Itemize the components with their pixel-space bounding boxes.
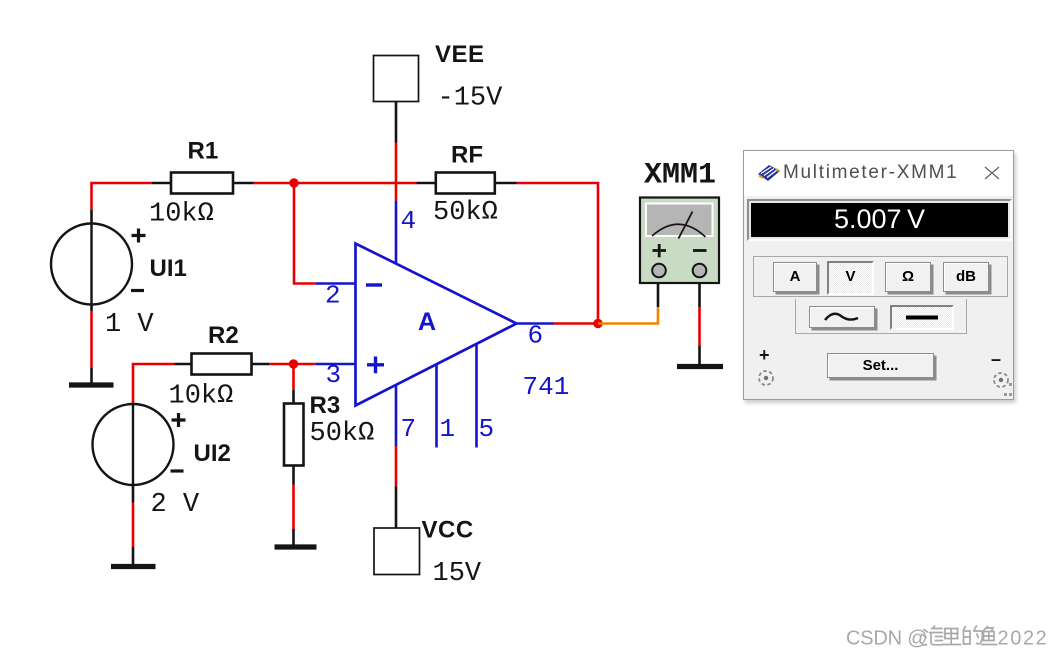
wire VEE stem red xyxy=(395,143,398,202)
svg-text:2022: 2022 xyxy=(998,628,1049,650)
op-amp pin 2 stub xyxy=(316,282,356,285)
svg-text:R3: R3 xyxy=(310,392,341,419)
op-amp minus mark xyxy=(366,283,382,286)
wire multimeter minus stem xyxy=(698,283,701,307)
junction node A xyxy=(289,178,298,187)
knob left xyxy=(757,369,775,387)
junction node C xyxy=(289,359,298,368)
op-amp pin 5 wire xyxy=(475,344,478,448)
svg-text:CSDN @: CSDN @ xyxy=(846,628,927,650)
op-amp plus mark xyxy=(367,357,384,374)
wire R2 to node C xyxy=(269,363,294,366)
svg-text:VEE: VEE xyxy=(435,41,485,68)
ground multimeter xyxy=(677,364,723,369)
svg-text:7: 7 xyxy=(401,414,417,444)
groove row 1 xyxy=(753,256,1008,297)
svg-text:15V: 15V xyxy=(433,559,482,589)
svg-text:2: 2 xyxy=(325,281,341,311)
svg-text:RF: RF xyxy=(451,142,483,169)
svg-text:A: A xyxy=(418,308,436,336)
power VCC xyxy=(374,528,420,575)
svg-text:10kΩ: 10kΩ xyxy=(169,382,234,412)
power VEE xyxy=(374,56,419,102)
plus terminal label xyxy=(759,345,770,366)
svg-text:1 V: 1 V xyxy=(105,310,154,340)
svg-text:R1: R1 xyxy=(188,138,219,165)
knob right xyxy=(992,371,1010,389)
groove row 2 xyxy=(795,299,967,334)
minus terminal label xyxy=(991,349,1001,370)
wire R3 bottom red xyxy=(292,485,295,530)
svg-text:741: 741 xyxy=(523,372,570,402)
sine button xyxy=(809,306,875,328)
resize grip xyxy=(1000,383,1013,397)
wire multimeter plus stem xyxy=(657,283,660,307)
svg-text:10kΩ: 10kΩ xyxy=(149,200,214,230)
svg-text:-15V: -15V xyxy=(438,84,504,114)
svg-text:R2: R2 xyxy=(208,322,239,349)
svg-text:UI2: UI2 xyxy=(194,440,231,467)
wire UI1 bottom red xyxy=(90,311,93,368)
resistor RF xyxy=(417,173,517,194)
wire node C to R3 red xyxy=(292,364,295,390)
wire UI2 bottom red xyxy=(132,503,135,548)
wire pin7 to VCC red xyxy=(395,446,398,487)
title bar xyxy=(744,151,1013,196)
wire UI2 ground stem xyxy=(132,547,135,564)
junction node B xyxy=(593,319,602,328)
wire UI1 ground stem xyxy=(90,368,93,383)
wire UI1 top stub black xyxy=(90,210,93,224)
resistor R3 xyxy=(284,404,304,466)
wire UI1 top to R1 xyxy=(92,183,153,210)
wire multimeter minus red xyxy=(698,307,701,346)
display xyxy=(747,199,1012,241)
ground UI2 xyxy=(111,564,156,569)
op-amp pin 4 wire xyxy=(395,201,398,264)
multimeter window xyxy=(743,150,1014,400)
svg-text:6: 6 xyxy=(528,321,544,351)
svg-text:4: 4 xyxy=(401,206,417,236)
wire UI2 bottom black xyxy=(132,485,135,503)
wire orange to multimeter xyxy=(598,307,658,324)
multimeter XMM1 icon xyxy=(640,198,719,284)
op-amp pin 6 stub xyxy=(517,322,554,325)
wire VCC stem black xyxy=(395,487,398,529)
svg-text:1: 1 xyxy=(440,414,456,444)
op-amp pin 7 wire xyxy=(395,385,398,447)
op-amp U1 triangle xyxy=(356,244,517,406)
dc button xyxy=(890,305,954,330)
resistor R2 xyxy=(175,354,270,375)
svg-text:XMM1: XMM1 xyxy=(644,159,716,193)
voltage source UI1 xyxy=(51,224,146,305)
wire VEE stem black xyxy=(395,102,398,143)
wire R3 ground stem xyxy=(292,529,295,545)
svg-text:3: 3 xyxy=(326,360,342,390)
set button xyxy=(827,353,934,378)
wire R3 bottom black xyxy=(292,466,295,485)
ground UI1 xyxy=(69,382,114,387)
wire pin6 red xyxy=(554,322,599,325)
wire node C to op-amp xyxy=(294,363,317,366)
voltage source UI2 xyxy=(93,404,186,485)
svg-text:UI1: UI1 xyxy=(150,255,187,282)
op-amp pin 3 stub xyxy=(316,363,356,366)
close X xyxy=(984,166,1000,180)
wire RF to node B xyxy=(517,183,599,324)
wire feedback junction to pin2 xyxy=(294,183,316,284)
svg-text:50kΩ: 50kΩ xyxy=(310,419,375,449)
watermark xyxy=(840,615,1061,655)
wire R3 top stub xyxy=(292,390,295,404)
svg-text:5: 5 xyxy=(479,414,495,444)
resistor R1 xyxy=(152,173,254,194)
wire multimeter ground stem xyxy=(698,346,701,364)
wire UI1 bottom black xyxy=(90,305,93,312)
svg-text:50kΩ: 50kΩ xyxy=(433,198,498,228)
op-amp pin 1 wire xyxy=(435,364,438,448)
buttons A V ohm dB xyxy=(773,262,817,292)
svg-text:VCC: VCC xyxy=(422,517,474,544)
wire R1 to RF xyxy=(254,182,417,185)
wire UI2 to R2 xyxy=(133,364,175,404)
svg-text:2 V: 2 V xyxy=(151,490,200,520)
ground R3 xyxy=(275,544,317,549)
